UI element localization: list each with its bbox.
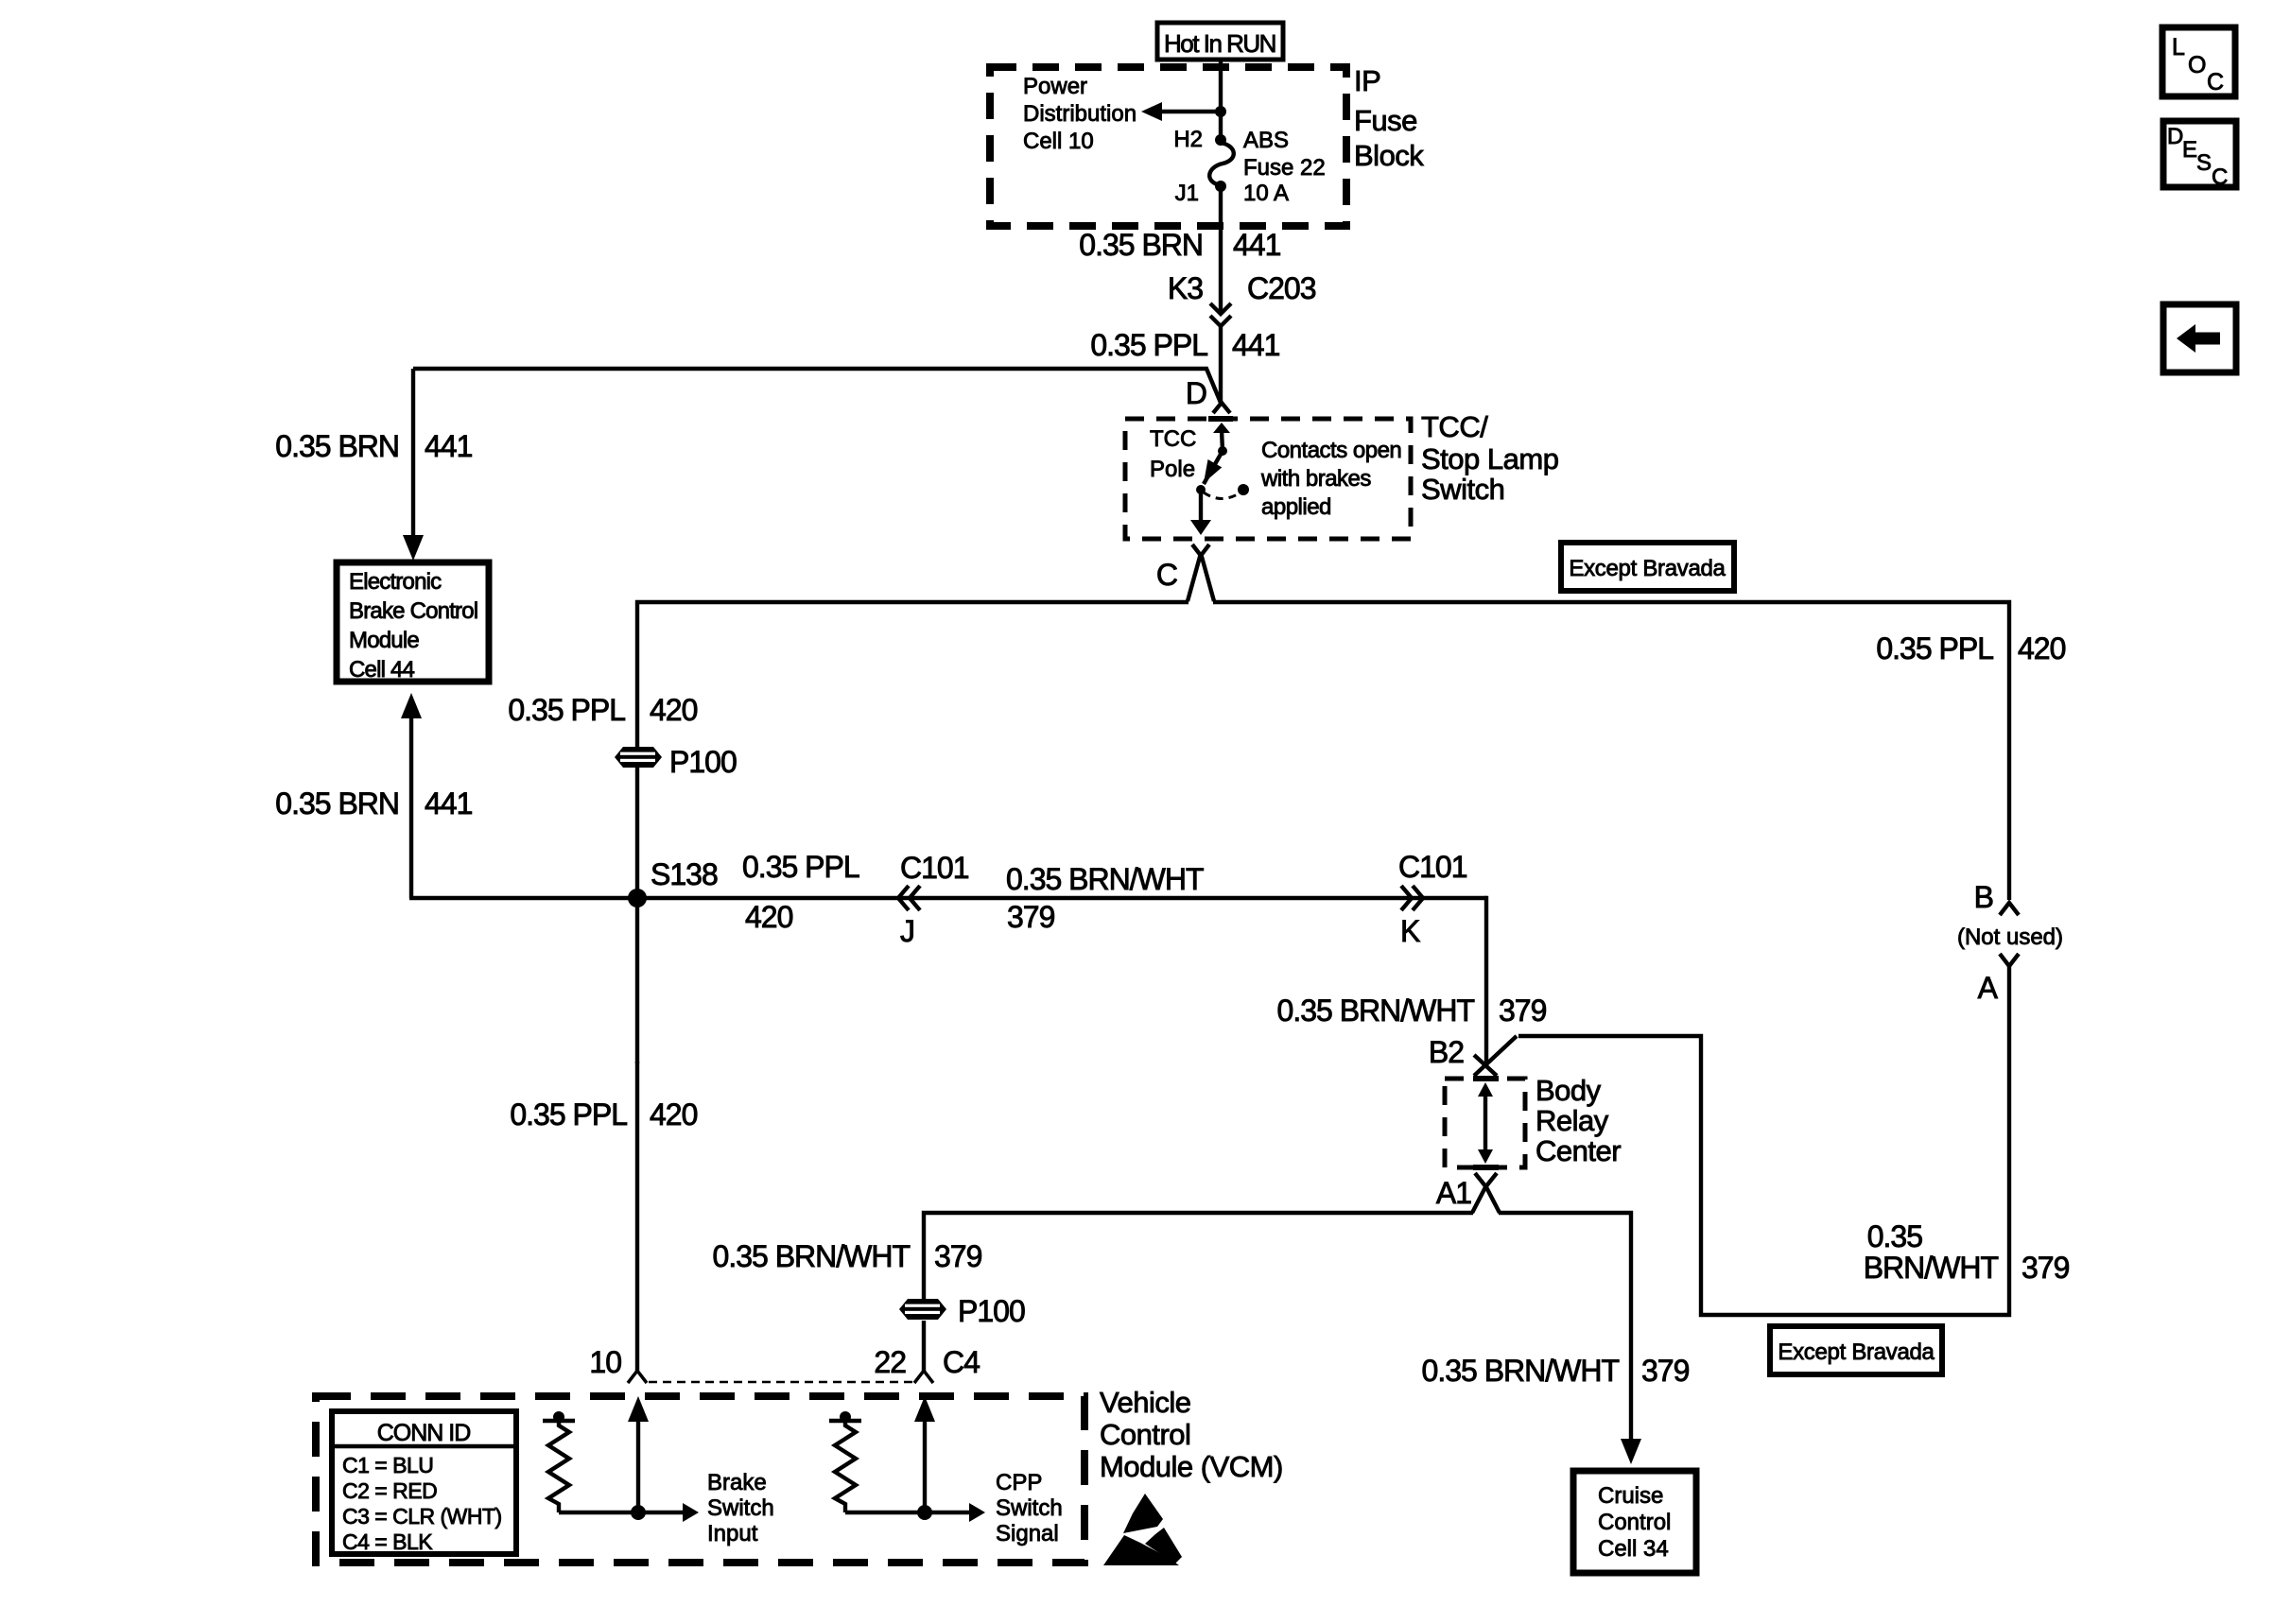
svg-text:0.35 BRN/WHT: 0.35 BRN/WHT: [1422, 1354, 1620, 1388]
svg-text:C101: C101: [900, 851, 969, 885]
svg-text:Center: Center: [1536, 1134, 1621, 1167]
svg-text:A: A: [1978, 971, 1999, 1005]
wire horizontal run to EBCM branch: [413, 369, 1221, 403]
arrow CPP switch signal: [925, 1503, 985, 1522]
CONN ID table: [332, 1411, 516, 1554]
label 0.35 BRN 441 (left lower): [275, 786, 472, 821]
arrow brake switch input: [638, 1503, 699, 1522]
svg-text:P100: P100: [669, 745, 737, 779]
svg-text:0.35 PPL: 0.35 PPL: [510, 1097, 627, 1132]
TCC/Stop Lamp Switch dashed box: [1125, 419, 1411, 539]
svg-text:C4: C4: [943, 1345, 980, 1379]
node at pin10/R1 junction: [631, 1505, 646, 1520]
svg-text:Vehicle: Vehicle: [1100, 1386, 1190, 1419]
svg-text:TCC: TCC: [1150, 426, 1196, 452]
svg-text:Except Bravada: Except Bravada: [1778, 1339, 1935, 1365]
svg-text:TCC/: TCC/: [1421, 410, 1488, 443]
grommet P100 (lower): [899, 1299, 946, 1320]
Cruise Control box: [1573, 1471, 1696, 1573]
svg-text:Module (VCM): Module (VCM): [1100, 1450, 1283, 1483]
svg-text:379: 379: [2021, 1251, 2070, 1285]
svg-text:379: 379: [1641, 1354, 1690, 1388]
relay center feed-through (bars and double arrow): [1473, 1079, 1499, 1167]
svg-text:C1 = BLU: C1 = BLU: [342, 1453, 433, 1477]
pin 10 arrow up inside VCM: [628, 1396, 649, 1512]
label 0.35 BRN/WHT over 379 (J to K): [1006, 862, 1204, 934]
connector pin 22 (female half): [914, 1371, 933, 1383]
contact dot (brakes applied): [1238, 484, 1249, 495]
svg-text:Cell 10: Cell 10: [1023, 129, 1094, 154]
svg-text:379: 379: [934, 1239, 982, 1273]
svg-text:C: C: [2212, 164, 2228, 190]
svg-text:420: 420: [650, 693, 698, 727]
label 0.35 PPL 420 (lower left column): [510, 1097, 697, 1132]
arrow to Power Distribution: [1141, 102, 1221, 121]
node J1: [1215, 181, 1226, 192]
svg-text:441: 441: [425, 786, 473, 821]
svg-text:10 A: 10 A: [1243, 181, 1289, 206]
wire A down and around to B2: [1518, 966, 2009, 1315]
Except Bravada box (lower): [1770, 1326, 1942, 1374]
connector A (male half): [2000, 954, 2019, 966]
svg-text:0.35 BRN/WHT: 0.35 BRN/WHT: [1006, 862, 1204, 896]
wire from Hot In RUN into fuse block: [1219, 60, 1223, 140]
svg-text:P100: P100: [958, 1294, 1025, 1328]
arrowhead into Cruise Control: [1621, 1439, 1641, 1464]
label Vehicle Control Module (VCM): [1100, 1386, 1283, 1483]
label 0.35 BRN 441 (left upper): [275, 429, 472, 463]
svg-text:379: 379: [1499, 993, 1547, 1028]
svg-text:S: S: [2196, 150, 2212, 176]
svg-text:H2: H2: [1173, 127, 1203, 152]
svg-text:K: K: [1400, 914, 1420, 948]
svg-text:A1: A1: [1436, 1176, 1471, 1210]
wire C to right toward Except Bravada branch: [1213, 602, 2009, 900]
node at pin22/R2 junction: [917, 1505, 932, 1520]
svg-text:C3 = CLR (WHT): C3 = CLR (WHT): [342, 1504, 502, 1529]
svg-text:O: O: [2188, 52, 2206, 78]
svg-text:Block: Block: [1354, 139, 1424, 172]
svg-text:Cruise: Cruise: [1598, 1483, 1663, 1509]
svg-text:Stop Lamp: Stop Lamp: [1421, 442, 1558, 475]
svg-text:S138: S138: [651, 857, 718, 891]
svg-text:441: 441: [1232, 328, 1280, 362]
svg-text:B2: B2: [1429, 1035, 1464, 1069]
svg-text:22: 22: [874, 1345, 906, 1379]
svg-text:C4 = BLK: C4 = BLK: [342, 1529, 433, 1554]
svg-text:Fuse 22: Fuse 22: [1243, 155, 1326, 181]
Except Bravada box (upper): [1561, 543, 1734, 591]
svg-text:Except Bravada: Except Bravada: [1569, 556, 1726, 581]
svg-text:CONN ID: CONN ID: [377, 1420, 471, 1446]
svg-text:L: L: [2172, 34, 2185, 60]
svg-text:0.35 BRN/WHT: 0.35 BRN/WHT: [1277, 993, 1475, 1028]
label IP Fuse Block: [1354, 64, 1424, 172]
svg-text:0.35 PPL: 0.35 PPL: [1090, 328, 1207, 362]
label CPP Switch Signal: [996, 1470, 1063, 1546]
wire A1 left to P100 column: [924, 1213, 1473, 1299]
label TCC Pole: [1150, 426, 1196, 482]
wire C to left then down (PPL 420): [637, 602, 1189, 894]
wire PPL 420 column down to pin 10: [635, 1062, 639, 1371]
svg-text:0.35 PPL: 0.35 PPL: [742, 850, 859, 884]
svg-text:C: C: [1156, 558, 1177, 592]
svg-text:applied: applied: [1261, 494, 1331, 520]
label K3 C203: [1168, 271, 1316, 305]
svg-text:B: B: [1974, 880, 1993, 914]
switch fixed contact bar at D entry: [1208, 416, 1233, 422]
arrow up into EBCM bottom: [401, 693, 422, 898]
label Power Distribution Cell 10: [1023, 74, 1136, 154]
label 0.35 BRN/WHT 379 (cruise drop): [1422, 1354, 1690, 1388]
svg-text:Input: Input: [707, 1521, 758, 1546]
label 0.35 PPL over 420 (S138 to C101): [742, 850, 859, 934]
svg-text:CPP: CPP: [996, 1470, 1042, 1495]
svg-text:Electronic: Electronic: [349, 569, 442, 595]
label 0.35 PPL 420 (upper left column): [508, 693, 697, 727]
wire from EBCM arrow to S138: [409, 896, 637, 900]
connector A1 (X at exit): [1472, 1173, 1500, 1213]
node at power distribution tap: [1215, 106, 1226, 117]
connector B (not used, female half): [2000, 903, 2019, 915]
svg-text:0.35 BRN: 0.35 BRN: [1079, 228, 1203, 262]
svg-text:Control: Control: [1100, 1418, 1190, 1451]
svg-text:C: C: [2207, 69, 2224, 95]
svg-text:J1: J1: [1175, 181, 1199, 206]
label Body Relay Center: [1536, 1074, 1621, 1167]
wire C203 down to D: [1219, 326, 1223, 403]
grommet P100 (upper): [615, 747, 662, 768]
arrowhead into EBCM: [403, 535, 424, 561]
svg-text:Switch: Switch: [1421, 473, 1504, 506]
svg-text:Body: Body: [1536, 1074, 1602, 1107]
label Brake Switch Input: [707, 1470, 774, 1546]
svg-text:(Not used): (Not used): [1957, 924, 2063, 950]
svg-text:Pole: Pole: [1150, 457, 1195, 482]
label 0.35 PPL 441: [1090, 328, 1279, 362]
connector B2 (X merge with branch wire): [1474, 1036, 1517, 1076]
IP Fuse Block dashed box: [990, 67, 1346, 226]
Body Relay Center dashed box: [1445, 1079, 1525, 1167]
svg-text:0.35 PPL: 0.35 PPL: [508, 693, 625, 727]
svg-text:Contacts open: Contacts open: [1261, 438, 1401, 463]
fuse F22 element (S-curve): [1209, 143, 1234, 185]
svg-text:D: D: [1186, 376, 1206, 410]
back arrow box: [2163, 304, 2236, 372]
svg-text:C2 = RED: C2 = RED: [342, 1478, 437, 1503]
svg-text:420: 420: [745, 900, 793, 934]
wire K down to B2: [1484, 898, 1486, 1068]
svg-text:ABS: ABS: [1243, 128, 1289, 153]
connector C101 K (double chevron right): [1401, 886, 1423, 910]
svg-text:Brake Control: Brake Control: [349, 598, 477, 624]
connector D (female half): [1213, 403, 1230, 413]
dashed travel arc of switch: [1204, 492, 1241, 499]
svg-text:441: 441: [1233, 228, 1281, 262]
svg-text:0.35 BRN: 0.35 BRN: [275, 429, 399, 463]
svg-text:Control: Control: [1598, 1510, 1671, 1535]
node H2: [1215, 134, 1226, 146]
LOC reference box: [2162, 27, 2235, 96]
label Contacts open with brakes applied: [1260, 438, 1401, 520]
svg-text:Switch: Switch: [996, 1495, 1063, 1521]
connector C101 J (double chevron left): [898, 886, 920, 910]
label 0.35 / BRN/WHT 379 (right lower branch): [1864, 1219, 2070, 1285]
wire left branch down to EBCM: [411, 369, 415, 537]
wire S138 to C101 J/K run: [637, 896, 1486, 900]
svg-text:Switch: Switch: [707, 1495, 774, 1521]
svg-text:C101: C101: [1398, 850, 1467, 884]
svg-text:C203: C203: [1247, 271, 1316, 305]
svg-text:IP: IP: [1354, 64, 1380, 97]
resistor R2 (CPP switch pull-up): [829, 1411, 925, 1512]
svg-text:Distribution: Distribution: [1023, 101, 1136, 127]
connector C203 (inline, double chevron): [1210, 303, 1231, 326]
power label box "Hot In RUN": [1157, 23, 1283, 60]
svg-text:Module: Module: [349, 628, 419, 653]
svg-text:379: 379: [1007, 900, 1055, 934]
label 0.35 BRN 441: [1079, 228, 1280, 262]
connector pin 10 (female half): [628, 1371, 647, 1383]
dotted connector face line: [649, 1381, 914, 1384]
VCM dashed box: [316, 1396, 1084, 1563]
label 0.35 BRN/WHT 379 (A1 left): [713, 1239, 982, 1273]
ESD sensitive symbol: [1103, 1494, 1182, 1565]
svg-text:BRN/WHT: BRN/WHT: [1864, 1251, 1999, 1285]
svg-text:Cell 34: Cell 34: [1598, 1536, 1669, 1562]
svg-text:D: D: [2167, 124, 2183, 149]
svg-text:420: 420: [2018, 631, 2066, 665]
wire P100 down to pin 22: [922, 1321, 926, 1371]
svg-text:Cell 44: Cell 44: [349, 657, 415, 682]
splice S138: [628, 889, 647, 907]
label 0.35 PPL 420 (right branch): [1876, 631, 2065, 665]
svg-text:Hot In RUN: Hot In RUN: [1164, 29, 1275, 58]
svg-text:Signal: Signal: [996, 1521, 1059, 1546]
svg-text:Fuse: Fuse: [1354, 104, 1417, 137]
svg-text:Power: Power: [1023, 74, 1087, 99]
switch pole arm with arrows: [1190, 423, 1230, 535]
svg-text:420: 420: [650, 1097, 698, 1132]
label TCC/ Stop Lamp Switch: [1421, 410, 1558, 506]
wire J1 down to C203: [1219, 186, 1223, 313]
wire A1 right to cruise branch: [1499, 1213, 1631, 1441]
connector C (X at box exit): [1188, 544, 1214, 601]
svg-text:Relay: Relay: [1536, 1104, 1609, 1137]
EBCM box Electronic Brake Control Module: [337, 562, 489, 682]
label ABS Fuse 22 10 A: [1243, 128, 1326, 206]
svg-text:E: E: [2182, 137, 2197, 163]
svg-text:K3: K3: [1168, 271, 1203, 305]
svg-text:10: 10: [589, 1345, 621, 1379]
svg-text:441: 441: [425, 429, 473, 463]
svg-text:J: J: [900, 914, 914, 948]
svg-text:Brake: Brake: [707, 1470, 767, 1495]
pin 22 arrow up inside VCM: [914, 1396, 935, 1512]
label 0.35 BRN/WHT 379 (K to B2): [1277, 993, 1547, 1028]
svg-text:0.35: 0.35: [1867, 1219, 1922, 1253]
svg-text:0.35 PPL: 0.35 PPL: [1876, 631, 1993, 665]
svg-text:0.35 BRN/WHT: 0.35 BRN/WHT: [713, 1239, 911, 1273]
DESC reference box: [2163, 121, 2236, 190]
resistor R1 (brake switch input pull-up): [543, 1411, 638, 1512]
svg-text:0.35 BRN: 0.35 BRN: [275, 786, 399, 821]
svg-text:with brakes: with brakes: [1260, 466, 1371, 492]
